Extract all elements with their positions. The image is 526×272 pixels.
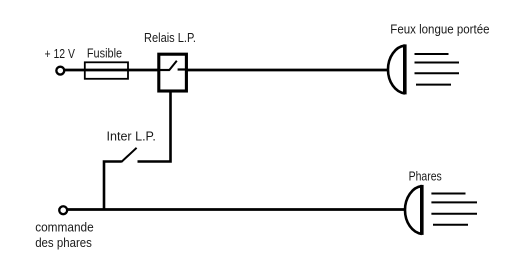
lamp reflector arc (405, 186, 422, 234)
svg-text:des phares: des phares (35, 236, 92, 250)
wire top main (64, 69, 388, 72)
node commande terminal (59, 206, 67, 214)
wire relay coil to switch (138, 90, 171, 162)
svg-text:Fusible: Fusible (87, 47, 122, 61)
svg-text:Inter L.P.: Inter L.P. (107, 129, 156, 143)
switch S1 Inter L.P. (104, 148, 137, 210)
lamp ray 3 (431, 213, 477, 215)
lamp ray 2 (431, 201, 477, 203)
lamp flat bar (420, 185, 424, 235)
relay contact blade (169, 61, 177, 71)
svg-text:Relais L.P.: Relais L.P. (144, 31, 196, 45)
switch blade (121, 148, 136, 162)
lamp flat bar (403, 44, 407, 94)
lamp ray 4 (416, 84, 451, 86)
lamp ray 1 (415, 53, 449, 55)
fuse F1 Fusible (85, 62, 128, 79)
relay contact left stub (160, 69, 169, 71)
svg-text:Phares: Phares (409, 169, 442, 183)
lamp reflector arc (388, 46, 405, 94)
svg-text:commande: commande (35, 221, 94, 235)
lamp ray 4 (433, 224, 468, 226)
lamp ray 3 (415, 72, 460, 74)
svg-text:+ 12 V: + 12 V (45, 47, 76, 61)
lamp ray 2 (415, 62, 460, 64)
lamp L2 Phares (405, 185, 477, 235)
wire switch left leg (104, 162, 122, 210)
relay K1 Relais L.P. box (159, 54, 187, 91)
relay contact right stub (178, 68, 186, 70)
svg-text:Feux longue portée: Feux longue portée (390, 23, 489, 37)
lamp L1 Feux longue portee (388, 44, 459, 94)
wire bottom main (67, 208, 405, 211)
node +12V terminal (56, 67, 64, 75)
lamp ray 1 (431, 193, 465, 195)
